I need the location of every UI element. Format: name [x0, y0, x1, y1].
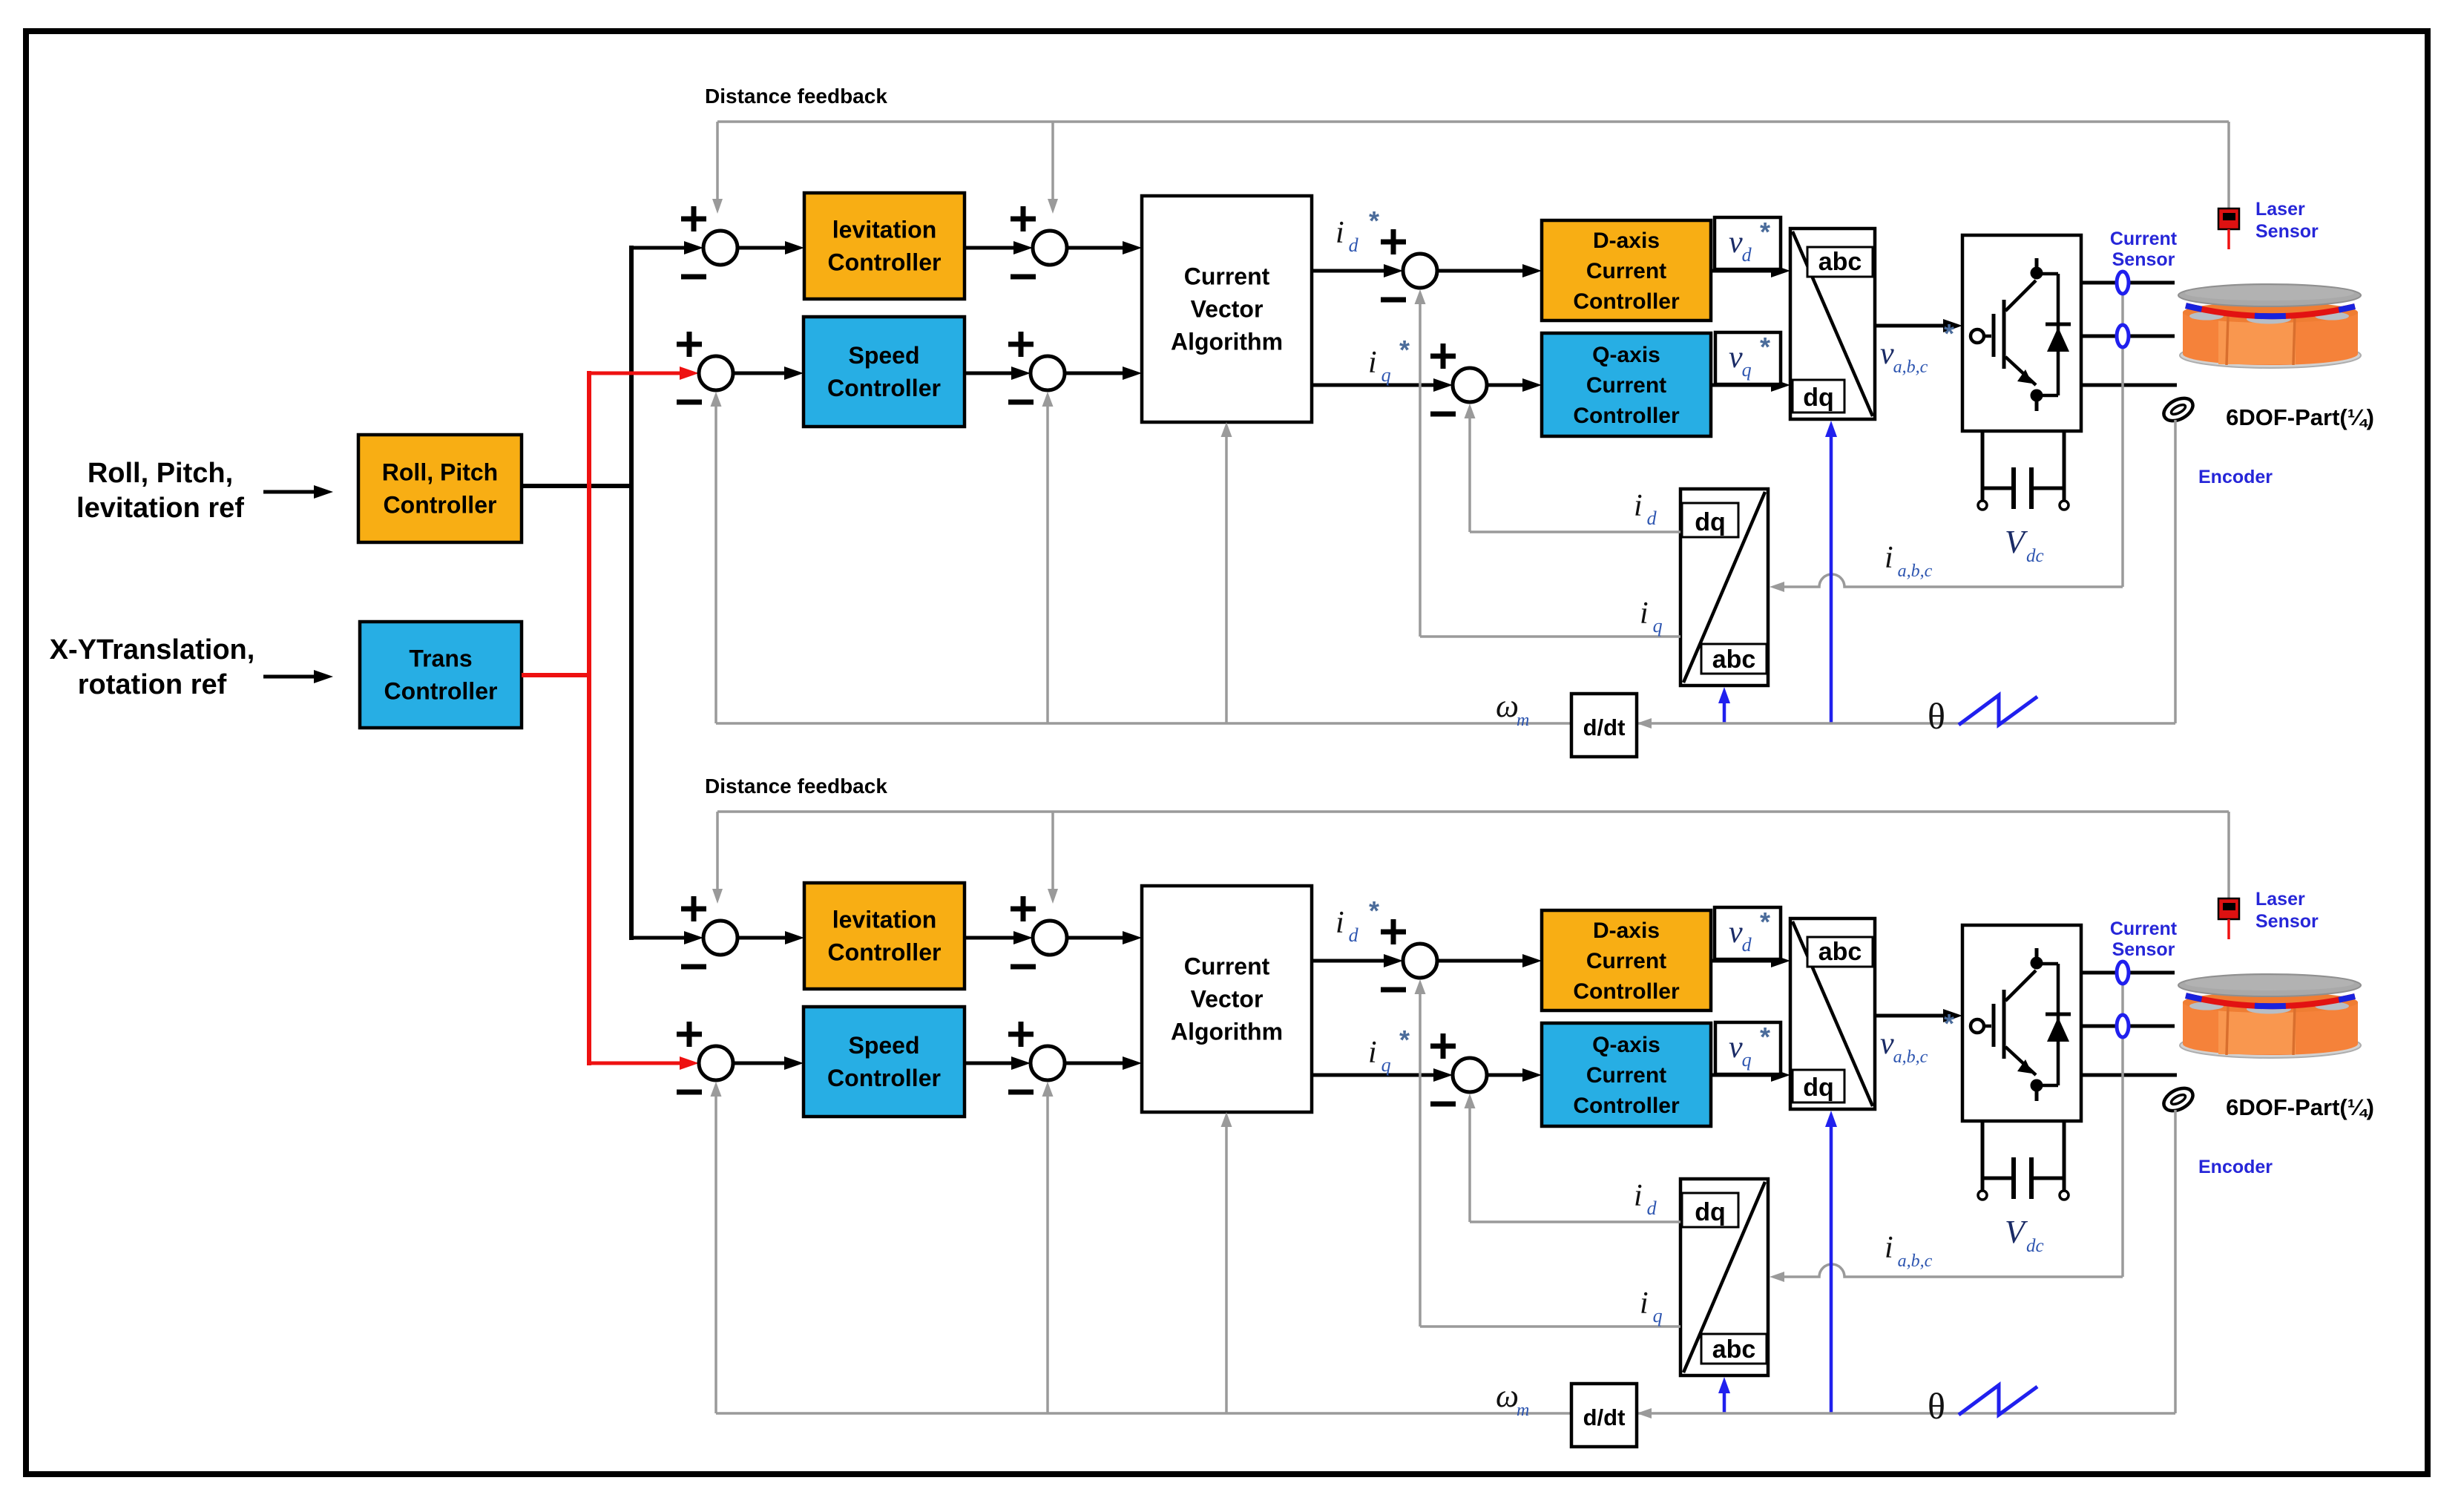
upper drive channel: [677, 85, 2374, 757]
wire: Trans Controller output bus (red): [522, 673, 589, 677]
svg-text:a,b,c: a,b,c: [1898, 562, 1933, 581]
svg-text:Trans: Trans: [409, 645, 472, 672]
block: inverter (ch2): [1962, 925, 2081, 1121]
wire: omega branch into current vector algorithm (ch2): [1225, 1125, 1228, 1413]
label box: dq (top) (ch1): [1682, 503, 1738, 537]
svg-text:levitation: levitation: [832, 217, 936, 243]
motor rotor disc (ch1): [2178, 284, 2361, 306]
svg-text:Speed: Speed: [848, 342, 919, 369]
plus sign at S5 (ch1): [1381, 240, 1406, 245]
current sensor ring a (ch2): [2117, 962, 2129, 984]
svg-text:v: v: [1729, 916, 1743, 950]
wire: encoder feedback run (ch1): [1637, 722, 2175, 725]
wire: iq feedback to S5 (ch1): [1420, 635, 1680, 638]
label box: dq (bottom) (ch2): [1793, 1070, 1844, 1102]
wire: speed controller to S4 (ch1): [965, 372, 1013, 375]
wire: phase c line (ch2): [2081, 1074, 2177, 1077]
wire: encoder feedback run (ch2): [1637, 1412, 2175, 1415]
inverter IGBT collector angled lead (ch2): [2005, 970, 2036, 1001]
inverter gate terminal circle (ch1): [1971, 329, 1984, 343]
svg-text:d: d: [1349, 234, 1359, 256]
summing junction S4 (ch1): [1031, 356, 1065, 390]
wire: iq* output to S6 (ch2): [1312, 1074, 1435, 1077]
svg-text:d/dt: d/dt: [1583, 714, 1626, 740]
minus sign at S1 (ch1): [681, 275, 706, 280]
svg-text:dq: dq: [1695, 1198, 1726, 1226]
wire: distance feedback drop to laser sensor (ch1): [2227, 122, 2230, 208]
svg-text:X-YTranslation,: X-YTranslation,: [50, 634, 255, 665]
wire: S4 to current vector algorithm (ch1): [1065, 372, 1124, 375]
plus sign at S1 (ch1): [681, 217, 706, 222]
svg-text:Sensor: Sensor: [2112, 249, 2175, 270]
wire: omega branch into S3 (ch2): [714, 1095, 717, 1413]
svg-text:Roll, Pitch: Roll, Pitch: [382, 459, 498, 486]
svg-text:Distance feedback: Distance feedback: [705, 85, 887, 108]
wire: DC link left leg (ch2): [1981, 1121, 1985, 1191]
inverter emitter bus stub (ch2): [2035, 1091, 2039, 1101]
minus sign at S3 (ch2): [677, 1090, 702, 1095]
block: vq* label box (ch2): [1715, 1022, 1781, 1074]
svg-text:Controller: Controller: [1573, 289, 1680, 314]
svg-text:v: v: [1729, 341, 1743, 375]
svg-text:d: d: [1647, 507, 1657, 529]
wire: id* output to S5 (ch1): [1312, 269, 1385, 273]
inverter gate wire (ch1): [1984, 335, 1991, 338]
summing junction S3 (ch1): [699, 356, 733, 390]
block: Q-axis Current Controller (ch1): [1542, 333, 1711, 436]
block: levitation Controller (ch2): [804, 883, 965, 989]
svg-text:q: q: [1381, 1054, 1391, 1076]
wire: encoder signal drop (ch2): [2174, 1110, 2177, 1413]
wire: theta to measurement transform (blue) (ch2): [1723, 1392, 1726, 1413]
plus sign at S2 (ch2): [1011, 907, 1036, 912]
wire: distance feedback top run (ch2): [717, 810, 2229, 813]
block: vd* label box (ch1): [1715, 217, 1781, 269]
plus sign at S4 (ch1): [1008, 342, 1034, 347]
plus sign at S1 (ch2): [681, 907, 706, 912]
wire: DC link left leg (ch1): [1981, 431, 1985, 502]
svg-text:Current: Current: [1586, 1063, 1666, 1088]
wire: D-axis output to dq-abc transform (ch2): [1711, 959, 1772, 963]
plus sign at S3 (ch1): [677, 342, 702, 347]
block: Current Vector Algorithm (ch1): [1142, 196, 1312, 422]
theta sawtooth waveform (ch2): [1959, 1385, 2037, 1415]
plus sign at S5 (ch2): [1381, 930, 1406, 935]
inverter IGBT gate bar (ch2): [1992, 1004, 1996, 1047]
svg-text:*: *: [1399, 1025, 1410, 1055]
wire: omega branch into current vector algorithm (ch1): [1225, 435, 1228, 723]
theta sawtooth waveform (ch1): [1959, 695, 2037, 725]
label box: abc (bottom) (ch1): [1701, 644, 1767, 674]
block: Speed Controller (ch2): [804, 1007, 965, 1117]
svg-text:levitation: levitation: [832, 907, 936, 933]
wire: phase c line (ch1): [2081, 384, 2177, 387]
motor rotor disc (ch2): [2178, 974, 2361, 996]
svg-text:levitation ref: levitation ref: [76, 493, 244, 524]
svg-text:θ: θ: [1928, 1385, 1945, 1427]
summing junction S6 (ch2): [1453, 1058, 1487, 1092]
minus sign at S5 (ch2): [1381, 987, 1406, 993]
wire: levitation reference into S1 (lower): [631, 936, 686, 940]
wire: distance feedback arrow into S1 (ch1): [716, 122, 719, 200]
wire: S5 to D-axis controller (ch2): [1437, 959, 1524, 963]
svg-text:i: i: [1640, 1286, 1649, 1321]
wire: id feedback to S6 (ch1): [1470, 530, 1680, 533]
block: abc to dq measurement transform (ch1): [1680, 489, 1768, 686]
laser beam (ch2): [2227, 919, 2230, 939]
svg-text:*: *: [1399, 335, 1410, 365]
svg-text:d: d: [1742, 244, 1752, 266]
inverter bottom node dot (ch2): [2031, 1079, 2043, 1092]
diagonal of dq-abc transform (ch1): [1793, 231, 1873, 416]
plus sign at S3 (ch2): [677, 1032, 702, 1037]
wire: S1 to levitation controller (ch2): [737, 936, 786, 940]
inverter IGBT emitter lead with arrow (ch2): [2005, 1047, 2036, 1075]
svg-text:Laser: Laser: [2255, 889, 2305, 910]
svg-text:d: d: [1349, 924, 1359, 946]
minus sign at S4 (ch2): [1008, 1090, 1034, 1095]
svg-text:Current: Current: [1586, 259, 1666, 283]
svg-text:v: v: [1729, 226, 1743, 260]
svg-text:i: i: [1885, 1231, 1893, 1265]
svg-text:Current: Current: [1184, 953, 1270, 980]
wire: D-axis output to dq-abc transform (ch1): [1711, 269, 1772, 273]
wire: omega branch into S3 (ch1): [714, 405, 717, 723]
summing junction S2 (ch1): [1033, 231, 1067, 265]
inverter gate wire (ch2): [1984, 1025, 1991, 1028]
wire: theta to dq-abc transform (blue) (ch2): [1830, 1125, 1833, 1413]
motor stator slot openings (ch1): [2189, 312, 2224, 321]
block: vq* label box (ch1): [1715, 332, 1781, 384]
inverter IGBT body bar (ch2): [2002, 990, 2006, 1059]
svg-text:Current: Current: [2110, 918, 2178, 939]
wire: Q-axis output to dq-abc transform (ch1): [1711, 384, 1772, 387]
minus sign at S6 (ch2): [1430, 1102, 1456, 1107]
inverter IGBT collector angled lead (ch1): [2005, 280, 2036, 311]
svg-text:v: v: [1729, 1031, 1743, 1065]
svg-text:Controller: Controller: [1573, 404, 1680, 428]
minus sign at S1 (ch2): [681, 964, 706, 970]
svg-text:Vector: Vector: [1191, 296, 1264, 323]
motor magnet ring (ch1): [2186, 306, 2355, 316]
plus sign at S6 (ch1): [1430, 354, 1456, 359]
svg-text:Controller: Controller: [827, 375, 941, 401]
plus sign at S6 (ch2): [1430, 1044, 1456, 1049]
block: dq to abc transform (ch1): [1790, 229, 1875, 419]
label box: abc (bottom) (ch2): [1701, 1334, 1767, 1364]
wire: speed reference into S3 (lower, red): [589, 1062, 681, 1065]
inverter top link to diode branch (ch1): [2037, 272, 2058, 276]
inverter IGBT collector bus stub (ch2): [2035, 948, 2039, 959]
svg-text:i: i: [1368, 1036, 1377, 1070]
wire: distance feedback top run (ch1): [717, 120, 2229, 123]
svg-text:i: i: [1634, 489, 1643, 523]
block: inverter (ch1): [1962, 235, 2081, 431]
svg-text:v: v: [1880, 337, 1894, 371]
svg-text:Algorithm: Algorithm: [1171, 329, 1283, 355]
inverter top node dot (ch2): [2031, 957, 2043, 970]
block: levitation Controller (ch1): [804, 193, 965, 299]
summing junction S4 (ch2): [1031, 1046, 1065, 1080]
svg-text:Laser: Laser: [2255, 199, 2305, 220]
svg-text:Current: Current: [2110, 229, 2178, 249]
wire: Q-axis output to dq-abc transform (ch2): [1711, 1074, 1772, 1077]
wire: distance feedback arrow into S2 (ch1): [1051, 122, 1054, 200]
minus sign at S6 (ch1): [1430, 412, 1456, 417]
diagonal of measurement transform (ch1): [1683, 492, 1765, 683]
block: D-axis Current Controller (ch1): [1542, 220, 1711, 321]
svg-text:dc: dc: [2026, 546, 2044, 566]
svg-text:Controller: Controller: [828, 249, 942, 276]
svg-text:m: m: [1517, 711, 1529, 730]
svg-text:Encoder: Encoder: [2198, 1157, 2273, 1177]
svg-text:Encoder: Encoder: [2198, 467, 2273, 487]
diagonal of measurement transform (ch2): [1683, 1182, 1765, 1373]
summing junction S3 (ch2): [699, 1046, 733, 1080]
svg-text:θ: θ: [1928, 695, 1945, 737]
block: Speed Controller (ch1): [804, 317, 965, 427]
svg-text:Controller: Controller: [384, 678, 498, 705]
lower drive channel: [677, 775, 2374, 1447]
motor stator slot openings (ch2): [2189, 1002, 2224, 1010]
inverter bottom link to diode branch (ch1): [2037, 394, 2058, 398]
svg-text:*: *: [1369, 895, 1379, 926]
wire: iq feedback to S5 (ch2): [1420, 1325, 1680, 1328]
svg-text:d: d: [1742, 934, 1752, 956]
block: Current Vector Algorithm (ch2): [1142, 886, 1312, 1112]
svg-text:Q-axis: Q-axis: [1592, 343, 1660, 367]
block: Trans Controller: [360, 622, 522, 728]
wire: levitation controller to S2 (ch2): [965, 936, 1015, 940]
wire: S3 to speed controller (ch2): [733, 1062, 786, 1065]
summing junction S2 (ch2): [1033, 921, 1067, 955]
svg-text:q: q: [1653, 615, 1663, 637]
plus sign at S2 (ch1): [1011, 217, 1036, 222]
minus sign at S3 (ch1): [677, 400, 702, 405]
svg-text:Sensor: Sensor: [2255, 221, 2319, 242]
wire: theta to measurement transform (blue) (ch1): [1723, 702, 1726, 723]
wire: S2 to current vector algorithm (ch1): [1067, 246, 1124, 250]
svg-text:Algorithm: Algorithm: [1171, 1019, 1283, 1045]
wire: levitation controller to S2 (ch1): [965, 246, 1015, 250]
motor stator segment lines (ch2): [2227, 1006, 2228, 1055]
wire: omega branch into S4 (ch2): [1046, 1095, 1049, 1413]
svg-text:abc: abc: [1818, 938, 1862, 966]
wire: iq* output to S6 (ch1): [1312, 384, 1435, 387]
svg-text:q: q: [1381, 364, 1391, 386]
svg-text:Sensor: Sensor: [2112, 939, 2175, 960]
encoder pickup coil (ch2): [2160, 1084, 2196, 1116]
wire: speed reference into S3 (upper, red): [589, 372, 681, 375]
plus sign at S4 (ch2): [1008, 1032, 1034, 1037]
svg-text:Roll, Pitch,: Roll, Pitch,: [88, 458, 233, 489]
wire: Roll Pitch Controller output bus (black): [522, 484, 631, 488]
capacitor C_dc (ch1): [1982, 487, 2014, 490]
block: Q-axis Current Controller (ch2): [1542, 1023, 1711, 1126]
svg-text:m: m: [1517, 1401, 1529, 1420]
wire: i_abc feedback into transform (ch1): [1784, 574, 2123, 587]
current sensor ring a (ch1): [2117, 272, 2129, 294]
label box: abc (top) (ch1): [1807, 247, 1873, 277]
svg-text:i: i: [1335, 216, 1344, 250]
minus sign at S5 (ch1): [1381, 298, 1406, 303]
wire: phase b line (ch1): [2081, 335, 2175, 338]
svg-text:dc: dc: [2026, 1236, 2044, 1256]
inverter diode branch vertical (ch1): [2057, 274, 2060, 395]
wire: arrow into Roll Pitch Controller: [263, 490, 315, 494]
svg-text:q: q: [1742, 359, 1752, 381]
svg-text:ω: ω: [1496, 1378, 1519, 1414]
inverter top node dot (ch1): [2031, 267, 2043, 280]
inverter gate terminal circle (ch2): [1971, 1019, 1984, 1033]
wire: DC link right leg (ch2): [2063, 1121, 2066, 1191]
terminal circle left (ch1): [1978, 501, 1987, 510]
wire: S1 to levitation controller (ch1): [737, 246, 786, 250]
wire: S2 to current vector algorithm (ch2): [1067, 936, 1124, 940]
wire: v_abc* to inverter (ch1): [1875, 324, 1945, 328]
inverter diode D1 (ch1): [2046, 323, 2071, 326]
svg-text:*: *: [1369, 206, 1379, 236]
motor base rim (ch1): [2180, 343, 2361, 368]
wire: DC link right leg (ch1): [2063, 431, 2066, 502]
wire: theta to dq-abc transform (blue) (ch1): [1830, 435, 1833, 723]
inverter bottom node dot (ch1): [2031, 389, 2043, 402]
svg-text:q: q: [1742, 1049, 1752, 1071]
svg-text:rotation ref: rotation ref: [78, 669, 227, 700]
svg-text:Controller: Controller: [1573, 979, 1680, 1004]
svg-text:*: *: [1760, 1022, 1770, 1052]
svg-text:D-axis: D-axis: [1593, 229, 1660, 253]
svg-text:6DOF-Part(¼): 6DOF-Part(¼): [2226, 404, 2374, 430]
wire: phase b line (ch2): [2081, 1025, 2175, 1028]
motor stator segment lines (ch1): [2227, 316, 2228, 365]
summing junction S6 (ch1): [1453, 368, 1487, 402]
svg-text:Sensor: Sensor: [2255, 911, 2319, 932]
diagonal of dq-abc transform (ch2): [1793, 921, 1873, 1106]
summing junction S1 (ch1): [703, 231, 737, 265]
inverter diode D1 (ch2): [2046, 1013, 2071, 1016]
svg-text:q: q: [1653, 1305, 1663, 1327]
svg-text:i: i: [1640, 596, 1649, 631]
wire: distance feedback drop to laser sensor (ch2): [2227, 812, 2230, 898]
laser beam (ch1): [2227, 229, 2230, 249]
summing junction S5 (ch1): [1403, 254, 1437, 288]
motor base rim (ch2): [2180, 1033, 2361, 1058]
current sensor ring b (ch1): [2117, 325, 2129, 347]
svg-text:dq: dq: [1803, 384, 1834, 412]
inverter IGBT body bar (ch1): [2002, 300, 2006, 369]
svg-text:d/dt: d/dt: [1583, 1404, 1626, 1430]
wire: speed controller to S4 (ch2): [965, 1062, 1013, 1065]
label box: dq (top) (ch2): [1682, 1193, 1738, 1227]
inverter diode branch vertical (ch2): [2057, 964, 2060, 1085]
wire: levitation reference into S1 (upper): [631, 246, 686, 250]
laser sensor body (ch2): [2218, 898, 2239, 919]
minus sign at S2 (ch2): [1011, 964, 1036, 970]
wire: encoder signal drop (ch1): [2174, 420, 2177, 723]
svg-text:*: *: [1760, 907, 1770, 937]
svg-text:abc: abc: [1818, 248, 1862, 276]
svg-text:i: i: [1335, 906, 1344, 940]
inverter IGBT gate bar (ch1): [1992, 314, 1996, 357]
motor magnet ring (ch2): [2186, 996, 2355, 1006]
svg-text:*: *: [1760, 217, 1770, 247]
svg-text:abc: abc: [1712, 645, 1756, 674]
svg-text:d: d: [1647, 1197, 1657, 1219]
wire: omega branch into S4 (ch1): [1046, 405, 1049, 723]
wire: S5 to D-axis controller (ch1): [1437, 269, 1524, 273]
svg-text:Controller: Controller: [828, 939, 942, 966]
svg-text:*: *: [1944, 1008, 1954, 1039]
summing junction S5 (ch2): [1403, 944, 1437, 978]
capacitor C_dc (ch2): [1982, 1177, 2014, 1180]
laser sensor body (ch1): [2218, 208, 2239, 229]
label box: abc (top) (ch2): [1807, 937, 1873, 967]
label box: dq (bottom) (ch1): [1793, 380, 1844, 412]
block: vd* label box (ch2): [1715, 907, 1781, 959]
block: d/dt (ch2): [1571, 1384, 1637, 1447]
wire: arrow into Trans Controller: [263, 675, 315, 679]
svg-text:Controller: Controller: [384, 492, 497, 519]
encoder pickup coil (ch1): [2160, 394, 2196, 426]
svg-text:*: *: [1944, 318, 1954, 349]
terminal circle right (ch1): [2060, 501, 2069, 510]
svg-text:Speed: Speed: [848, 1032, 919, 1059]
svg-text:Controller: Controller: [827, 1065, 941, 1091]
inverter IGBT emitter lead with arrow (ch1): [2005, 357, 2036, 385]
svg-text:i: i: [1885, 541, 1893, 575]
svg-text:a,b,c: a,b,c: [1893, 1048, 1928, 1067]
current sensor ring b (ch2): [2117, 1015, 2129, 1037]
terminal circle right (ch2): [2060, 1191, 2069, 1200]
block: abc to dq measurement transform (ch2): [1680, 1179, 1768, 1375]
inverter top link to diode branch (ch2): [2037, 962, 2058, 966]
block: d/dt (ch1): [1571, 694, 1637, 757]
wire: id* output to S5 (ch2): [1312, 959, 1385, 963]
svg-text:Current: Current: [1586, 373, 1666, 398]
motor stator body (ch2): [2183, 1002, 2358, 1055]
inverter emitter bus stub (ch1): [2035, 401, 2039, 411]
svg-text:6DOF-Part(¼): 6DOF-Part(¼): [2226, 1094, 2374, 1120]
svg-text:Controller: Controller: [1573, 1094, 1680, 1118]
svg-text:v: v: [1880, 1027, 1894, 1061]
wire: phase a line (ch2): [2081, 971, 2175, 975]
summing junction S1 (ch2): [703, 921, 737, 955]
svg-text:dq: dq: [1695, 508, 1726, 536]
block: Roll, Pitch Controller: [358, 435, 522, 542]
svg-text:*: *: [1760, 332, 1770, 362]
svg-text:Vector: Vector: [1191, 986, 1264, 1013]
motor stator body (ch1): [2183, 312, 2358, 365]
svg-text:Q-axis: Q-axis: [1592, 1033, 1660, 1057]
wire: v_abc* to inverter (ch2): [1875, 1014, 1945, 1018]
svg-text:Current: Current: [1586, 949, 1666, 973]
wire: current measurement drop (ch1): [2121, 292, 2124, 587]
svg-text:i: i: [1368, 346, 1377, 380]
block: D-axis Current Controller (ch2): [1542, 910, 1711, 1010]
wire: S3 to speed controller (ch1): [733, 372, 786, 375]
svg-text:D-axis: D-axis: [1593, 918, 1660, 943]
wire: S6 to Q-axis controller (ch1): [1487, 384, 1524, 387]
terminal circle left (ch2): [1978, 1191, 1987, 1200]
svg-text:Distance feedback: Distance feedback: [705, 775, 887, 798]
wire: current measurement drop (ch2): [2121, 982, 2124, 1277]
inverter IGBT collector bus stub (ch1): [2035, 258, 2039, 269]
svg-text:abc: abc: [1712, 1335, 1756, 1364]
svg-text:i: i: [1634, 1179, 1643, 1213]
wire: S6 to Q-axis controller (ch2): [1487, 1074, 1524, 1077]
block: dq to abc transform (ch2): [1790, 918, 1875, 1109]
